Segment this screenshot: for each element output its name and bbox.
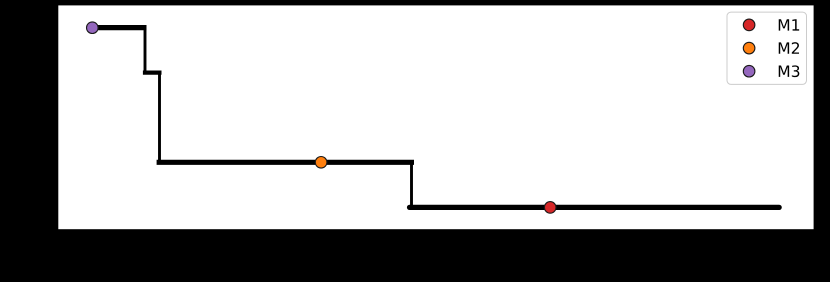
legend label M2 [779,42,799,54]
axes area [58,5,813,229]
step line segment V3 [410,162,413,207]
legend marker M1 [743,19,755,31]
legend label M1 [779,19,799,30]
legend box [727,12,807,84]
marker M3 purple [87,22,99,34]
step line segment H4 [410,205,780,210]
marker M1 red [544,202,556,214]
marker M2 orange [315,157,327,169]
legend marker M2 [743,42,755,54]
legend marker M3 [743,65,755,77]
step line segment H3 [157,160,414,165]
step line segment H2 [143,70,162,74]
step line segment H1 [92,25,146,30]
step line segment V1 [144,26,147,73]
legend label M3 [779,65,800,77]
step line segment V2 [158,73,161,163]
